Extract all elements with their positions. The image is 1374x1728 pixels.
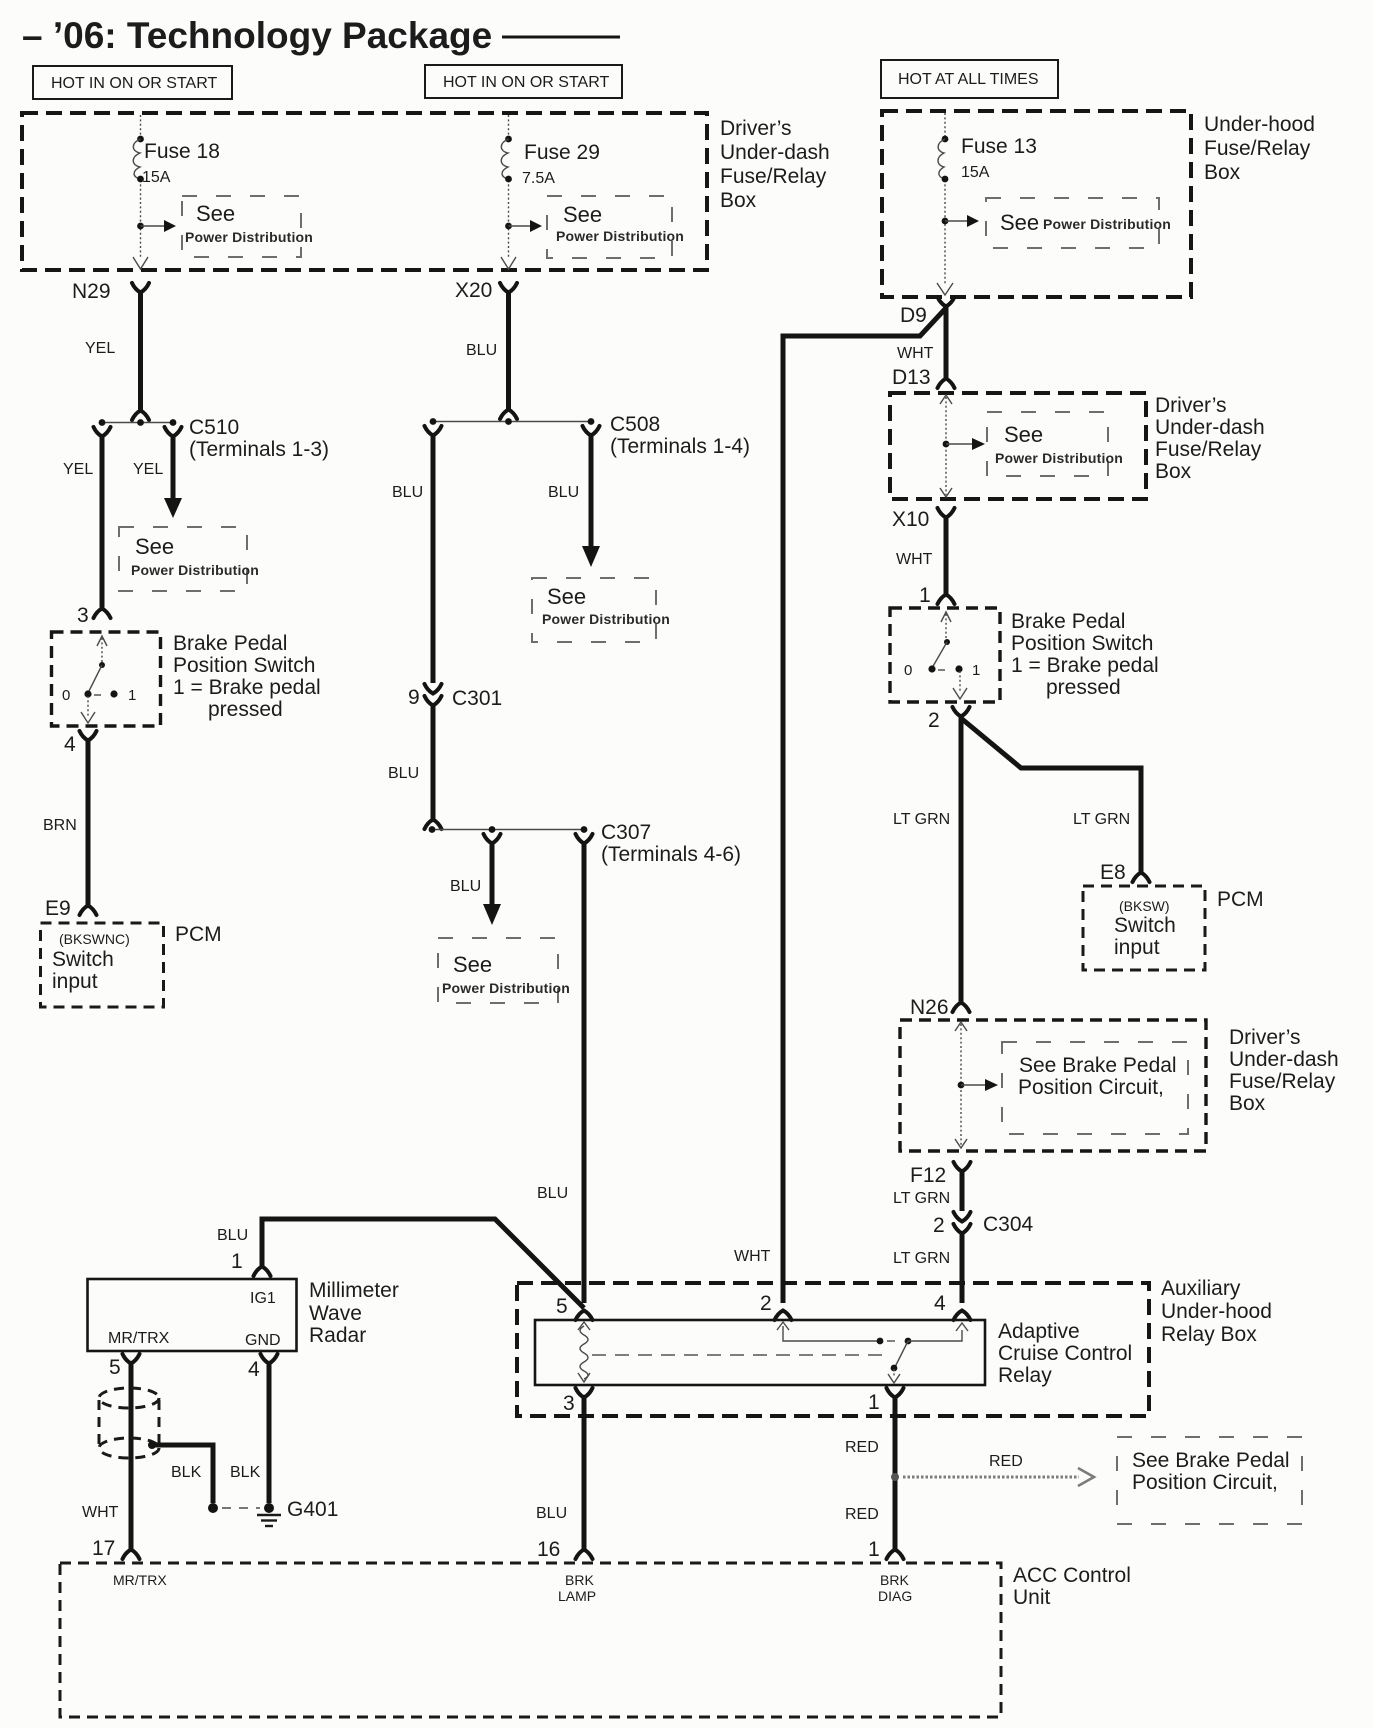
svg-text:WHT: WHT — [896, 551, 933, 568]
label See Brake Pedal Position Circuit (bottom right) — [1117, 1437, 1302, 1524]
wire switch 2 to N26 (LT GRN) — [893, 716, 970, 1019]
svg-text:WHT: WHT — [897, 345, 934, 362]
svg-text:HOT IN ON OR START: HOT IN ON OR START — [443, 74, 609, 91]
connector X10 — [892, 508, 955, 531]
svg-text:Fuse 13: Fuse 13 — [961, 135, 1037, 158]
connector C301 — [408, 684, 502, 710]
svg-text:D13: D13 — [892, 366, 931, 389]
svg-text:Box: Box — [720, 189, 757, 212]
relay: adaptive cruise control relay — [535, 1320, 1132, 1387]
svg-text:Power Distribution: Power Distribution — [995, 450, 1123, 466]
svg-text:Box: Box — [1229, 1092, 1266, 1115]
relay switch contacts — [777, 1322, 968, 1383]
svg-text:BLK: BLK — [171, 1464, 202, 1481]
wire C510 to switch terminal 3 (YEL) — [63, 436, 111, 627]
svg-text:N26: N26 — [910, 996, 949, 1019]
svg-text:Driver’s: Driver’s — [720, 117, 792, 140]
box: Driver's Under-dash Fuse/Relay Box (top) — [22, 113, 830, 270]
connector relay pin 5 — [556, 1295, 593, 1320]
svg-text:pressed: pressed — [208, 698, 283, 721]
svg-text:BLU: BLU — [537, 1185, 568, 1202]
svg-text:WHT: WHT — [82, 1504, 119, 1521]
wire fuse29 feed — [508, 115, 510, 257]
svg-text:E9: E9 — [45, 897, 71, 920]
wire radar MR/TRX to ACC 17 (WHT) — [82, 1363, 140, 1560]
svg-text:15A: 15A — [142, 169, 171, 186]
svg-text:Fuse 18: Fuse 18 — [144, 140, 220, 163]
svg-text:1: 1 — [919, 584, 931, 607]
svg-text:0: 0 — [904, 662, 912, 679]
svg-text:RED: RED — [845, 1439, 879, 1456]
svg-text:MR/TRX: MR/TRX — [113, 1572, 167, 1588]
svg-text:Driver’s: Driver’s — [1155, 394, 1227, 417]
wire radar IG1 to relay pin 5 (BLU) — [217, 1219, 584, 1308]
ground G401 — [257, 1498, 338, 1526]
svg-text:X20: X20 — [455, 279, 492, 302]
svg-text:Wave: Wave — [309, 1302, 362, 1325]
svg-text:Driver’s: Driver’s — [1229, 1026, 1301, 1049]
svg-text:D9: D9 — [900, 304, 927, 327]
svg-text:BLU: BLU — [217, 1227, 248, 1244]
svg-text:C304: C304 — [983, 1213, 1034, 1236]
svg-text:See: See — [453, 952, 492, 977]
svg-text:BLU: BLU — [536, 1505, 567, 1522]
svg-text:MR/TRX: MR/TRX — [108, 1330, 170, 1347]
svg-text:0: 0 — [62, 687, 70, 704]
svg-text:1 = Brake pedal: 1 = Brake pedal — [1011, 654, 1159, 677]
svg-text:BRK: BRK — [565, 1572, 594, 1588]
svg-text:Box: Box — [1155, 460, 1192, 483]
svg-text:Cruise Control: Cruise Control — [998, 1342, 1132, 1365]
label See Power Distribution (under fuse13) — [986, 198, 1171, 248]
svg-text:Brake Pedal: Brake Pedal — [1011, 610, 1125, 633]
svg-text:– ’06: Technology Package: – ’06: Technology Package — [22, 15, 492, 56]
connector radar pin 4 — [248, 1354, 278, 1381]
svg-text:3: 3 — [563, 1392, 575, 1415]
svg-text:LT GRN: LT GRN — [893, 811, 950, 828]
svg-text:YEL: YEL — [85, 340, 115, 357]
svg-text:Switch: Switch — [1114, 914, 1176, 937]
svg-text:Under-hood: Under-hood — [1161, 1300, 1272, 1323]
node C508 junction — [430, 413, 750, 458]
wire X20 to C508 (BLU) — [466, 292, 517, 419]
connector C508 terminal left — [425, 426, 442, 436]
svg-text:HOT AT ALL TIMES: HOT AT ALL TIMES — [898, 71, 1039, 88]
svg-text:1: 1 — [231, 1250, 243, 1273]
svg-text:See: See — [563, 202, 602, 227]
svg-text:Position Switch: Position Switch — [1011, 632, 1153, 655]
svg-text:Adaptive: Adaptive — [998, 1320, 1080, 1343]
svg-text:5: 5 — [556, 1295, 568, 1318]
svg-text:PCM: PCM — [175, 923, 222, 946]
box: Auxiliary Under-hood Relay Box — [517, 1277, 1272, 1416]
open arrow into box bottom (fuse29) — [501, 257, 516, 269]
connector switch terminal 2 — [928, 707, 970, 732]
svg-text:9: 9 — [408, 686, 420, 709]
label See Brake Pedal Position Circuit (N26 box) — [1002, 1042, 1188, 1134]
node RED branch — [891, 1453, 1094, 1486]
wire C307 to ACC relay pin 5 (BLU) — [537, 843, 584, 1303]
node C510 junction — [99, 416, 329, 461]
connector radar pin 5 — [109, 1354, 140, 1379]
svg-text:X10: X10 — [892, 508, 929, 531]
svg-text:input: input — [52, 970, 98, 993]
svg-text:4: 4 — [248, 1358, 260, 1381]
box: PCM switch input (left) — [41, 923, 222, 1007]
svg-text:C307: C307 — [601, 821, 651, 844]
svg-text:Position Switch: Position Switch — [173, 654, 315, 677]
svg-text:15A: 15A — [961, 164, 990, 181]
svg-text:F12: F12 — [910, 1164, 946, 1187]
shield around MR/TRX wire — [99, 1388, 159, 1458]
svg-text:Relay: Relay — [998, 1364, 1052, 1387]
svg-text:RED: RED — [989, 1453, 1023, 1470]
svg-text:Fuse/Relay: Fuse/Relay — [720, 165, 827, 188]
connector N29 — [72, 280, 149, 303]
fuse F29 — [501, 136, 600, 187]
svg-text:BLU: BLU — [388, 765, 419, 782]
brake pedal position switch (left) — [52, 632, 321, 726]
svg-text:5: 5 — [109, 1356, 121, 1379]
svg-text:Power Distribution: Power Distribution — [1043, 216, 1171, 232]
svg-text:BLU: BLU — [466, 342, 497, 359]
svg-text:See: See — [1000, 210, 1039, 235]
wire relay pin 3 to ACC 16 (BLU) — [536, 1397, 593, 1561]
svg-text:DIAG: DIAG — [878, 1588, 912, 1604]
svg-text:PCM: PCM — [1217, 888, 1264, 911]
svg-text:G401: G401 — [287, 1498, 338, 1521]
box: Driver's Under-dash Fuse/Relay Box (D13) — [890, 393, 1265, 499]
svg-text:2: 2 — [760, 1292, 772, 1315]
wire C510 branch to power distribution (YEL arrow) — [133, 436, 182, 518]
wire C304 to relay pin 4 (LT GRN) — [893, 1233, 962, 1303]
svg-text:Position Circuit,: Position Circuit, — [1132, 1471, 1278, 1494]
svg-text:Under-dash: Under-dash — [720, 141, 830, 164]
svg-text:GND: GND — [245, 1332, 281, 1349]
svg-text:Power Distribution: Power Distribution — [185, 229, 313, 245]
node fuse18 junction + see arrow — [137, 220, 176, 232]
svg-text:2: 2 — [928, 709, 940, 732]
svg-text:Switch: Switch — [52, 948, 114, 971]
svg-text:17: 17 — [92, 1537, 115, 1560]
label See Power Distribution (under fuse29) — [547, 196, 684, 258]
svg-text:Under-dash: Under-dash — [1155, 416, 1265, 439]
svg-text:1: 1 — [128, 687, 136, 704]
svg-text:Fuse/Relay: Fuse/Relay — [1229, 1070, 1336, 1093]
svg-text:See: See — [196, 201, 235, 226]
svg-text:input: input — [1114, 936, 1160, 959]
fuse F18 — [133, 136, 220, 186]
svg-text:7.5A: 7.5A — [522, 170, 555, 187]
node fuse29 junction + see arrow — [505, 220, 542, 232]
connector relay pin 2 — [760, 1292, 792, 1320]
svg-text:E8: E8 — [1100, 861, 1126, 884]
connector C307 terminal mid — [484, 834, 501, 844]
svg-text:YEL: YEL — [63, 461, 93, 478]
svg-text:Power Distribution: Power Distribution — [542, 611, 670, 627]
wire F12 to C304 (LT GRN) — [893, 1171, 962, 1211]
svg-text:BRK: BRK — [880, 1572, 909, 1588]
connector C510 terminal right — [165, 427, 182, 437]
wire C301 to C307 (BLU) — [388, 705, 442, 829]
svg-text:Auxiliary: Auxiliary — [1161, 1277, 1241, 1300]
svg-text:Fuse/Relay: Fuse/Relay — [1204, 137, 1311, 160]
brake pedal position switch (right) — [890, 608, 1159, 702]
svg-text:4: 4 — [64, 733, 76, 756]
connector C307 terminal right — [576, 834, 593, 844]
svg-text:See: See — [547, 584, 586, 609]
connector D9 — [900, 297, 955, 327]
label See Power Distribution (under C508) — [532, 578, 670, 642]
svg-text:LT GRN: LT GRN — [893, 1250, 950, 1267]
svg-text:LT GRN: LT GRN — [1073, 811, 1130, 828]
svg-text:Millimeter: Millimeter — [309, 1279, 399, 1302]
svg-text:See Brake Pedal: See Brake Pedal — [1019, 1054, 1177, 1077]
svg-text:LAMP: LAMP — [558, 1588, 596, 1604]
svg-text:(Terminals 1-3): (Terminals 1-3) — [189, 438, 329, 461]
wire C307 branch to power distribution (BLU arrow) — [450, 843, 501, 925]
connector C304 — [933, 1212, 1034, 1237]
svg-text:HOT IN ON OR START: HOT IN ON OR START — [51, 75, 217, 92]
svg-text:Under-dash: Under-dash — [1229, 1048, 1339, 1071]
open arrow into box bottom (fuse18) — [133, 257, 148, 269]
label HOT IN ON OR START (middle) — [425, 65, 622, 98]
relay linkage (dashed) — [592, 1354, 884, 1356]
svg-text:BLK: BLK — [230, 1464, 261, 1481]
label HOT AT ALL TIMES — [881, 60, 1058, 98]
radar: millimeter wave radar — [88, 1279, 399, 1351]
svg-text:4: 4 — [934, 1292, 946, 1315]
svg-text:C510: C510 — [189, 416, 239, 439]
label HOT IN ON OR START (left) — [33, 66, 232, 99]
svg-text:pressed: pressed — [1046, 676, 1121, 699]
svg-text:RED: RED — [845, 1506, 879, 1523]
svg-text:2: 2 — [933, 1214, 945, 1237]
box: Driver's Under-dash Fuse/Relay Box (N26) — [900, 1020, 1339, 1151]
svg-text:BLU: BLU — [392, 484, 423, 501]
svg-text:WHT: WHT — [734, 1248, 771, 1265]
svg-text:1 = Brake pedal: 1 = Brake pedal — [173, 676, 321, 699]
connector relay pin 4 — [934, 1292, 971, 1320]
wire D9 to D13 (WHT) — [892, 306, 955, 389]
svg-text:Power Distribution: Power Distribution — [442, 980, 570, 996]
svg-text:1: 1 — [972, 662, 980, 679]
svg-text:Fuse/Relay: Fuse/Relay — [1155, 438, 1262, 461]
connector relay pin 3 — [563, 1388, 593, 1415]
svg-text:BLU: BLU — [548, 484, 579, 501]
box: Under-hood Fuse/Relay Box (top right) — [882, 111, 1315, 297]
wire X10 to switch terminal 1 (WHT) — [896, 517, 955, 607]
label See Power Distribution (under C307) — [438, 938, 570, 1003]
svg-text:See: See — [135, 534, 174, 559]
svg-text:ACC Control: ACC Control — [1013, 1564, 1131, 1587]
svg-text:Radar: Radar — [309, 1324, 366, 1347]
svg-text:C301: C301 — [452, 687, 502, 710]
svg-text:16: 16 — [537, 1538, 560, 1561]
fuse F13 — [938, 135, 1037, 182]
connector F12 — [910, 1162, 971, 1187]
box: ACC control unit — [60, 1563, 1131, 1717]
svg-text:LT GRN: LT GRN — [893, 1190, 950, 1207]
label See Power Distribution (D13 box) — [987, 412, 1123, 476]
svg-text:Position Circuit,: Position Circuit, — [1018, 1076, 1164, 1099]
svg-text:BLU: BLU — [450, 878, 481, 895]
title — [22, 15, 620, 56]
wire fuse18 feed — [140, 115, 142, 257]
svg-text:Power Distribution: Power Distribution — [556, 228, 684, 244]
wire C508 branch to power distribution (BLU arrow) — [548, 435, 600, 567]
box: PCM switch input (right) — [1083, 886, 1264, 970]
node C307 junction — [429, 821, 741, 866]
label See Power Distribution (under C510) — [119, 527, 259, 591]
wire fuse13 feed — [944, 113, 946, 284]
wire switch to E9 (BRN) — [43, 740, 97, 920]
node fuse13 junction + see arrow — [942, 215, 979, 227]
wire shield drain to ground (BLK) — [148, 1441, 260, 1513]
svg-text:See Brake Pedal: See Brake Pedal — [1132, 1449, 1290, 1472]
svg-text:(Terminals 1-4): (Terminals 1-4) — [610, 435, 750, 458]
svg-text:IG1: IG1 — [250, 1290, 276, 1307]
connector relay pin 1 — [868, 1388, 904, 1414]
svg-text:Brake Pedal: Brake Pedal — [173, 632, 287, 655]
svg-text:YEL: YEL — [133, 461, 163, 478]
svg-text:(Terminals 4-6): (Terminals 4-6) — [601, 843, 741, 866]
svg-text:N29: N29 — [72, 280, 111, 303]
wire N29 to C510 (YEL) — [85, 292, 149, 420]
svg-text:Relay Box: Relay Box — [1161, 1323, 1257, 1346]
wire D9 branch to relay pin 2 (WHT) — [734, 308, 946, 1303]
svg-text:Fuse 29: Fuse 29 — [524, 141, 600, 164]
open arrow into box bottom (fuse13) — [937, 283, 953, 295]
svg-text:C508: C508 — [610, 413, 660, 436]
relay coil — [578, 1322, 590, 1382]
svg-text:Power Distribution: Power Distribution — [131, 562, 259, 578]
connector C508 terminal right — [583, 426, 600, 436]
connector switch terminal 4 — [64, 731, 97, 756]
svg-text:See: See — [1004, 422, 1043, 447]
svg-text:BRN: BRN — [43, 817, 77, 834]
connector C510 terminal left — [94, 427, 111, 437]
connector X20 — [455, 279, 517, 302]
svg-text:(BKSWNC): (BKSWNC) — [59, 931, 130, 947]
svg-text:Unit: Unit — [1013, 1586, 1051, 1609]
wire C508 to C301 (BLU) — [392, 435, 433, 683]
svg-text:3: 3 — [77, 604, 89, 627]
svg-text:(BKSW): (BKSW) — [1119, 898, 1170, 914]
svg-text:Under-hood: Under-hood — [1204, 113, 1315, 136]
svg-text:1: 1 — [868, 1391, 880, 1414]
svg-text:Box: Box — [1204, 161, 1241, 184]
label See Power Distribution (under fuse18) — [182, 196, 313, 257]
svg-text:1: 1 — [868, 1538, 880, 1561]
wire relay pin 1 to ACC 1 (RED) — [845, 1397, 904, 1561]
wire branch switch 2 to E8 (LT GRN) — [962, 719, 1150, 884]
wire radar GND to G401 (BLK) — [230, 1363, 274, 1513]
